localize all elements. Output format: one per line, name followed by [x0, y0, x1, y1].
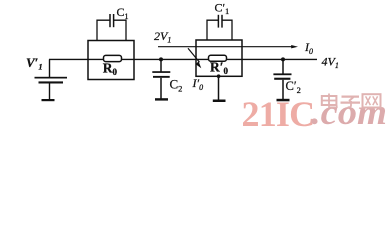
- wire battery top lead: [49, 59, 51, 77]
- current arrow I'0: [188, 48, 201, 68]
- wire C'1 right leg: [222, 20, 232, 40]
- resistor R0: [104, 55, 122, 61]
- box B1: [88, 41, 134, 80]
- resistor R'0: [209, 55, 227, 61]
- wire C'2 bottom lead: [282, 80, 284, 99]
- capacitor C2: [152, 71, 170, 78]
- wire C2 top lead: [160, 59, 162, 71]
- capacitor C'2: [273, 73, 291, 79]
- svg-text:21IC: 21IC: [242, 94, 315, 134]
- wire C1 right leg: [114, 20, 126, 40]
- wire C1 left leg: [97, 20, 110, 40]
- wire battery bottom lead: [49, 83, 51, 99]
- node C (C'2 tap): [281, 57, 285, 61]
- wire C2 bottom lead: [160, 78, 162, 99]
- wire C'1 left leg: [207, 20, 218, 40]
- ground (C'2): [277, 99, 290, 102]
- node B (box2 bottom): [217, 74, 221, 78]
- 网 glyph: [363, 94, 381, 107]
- wire C'2 top lead: [282, 59, 284, 73]
- node A (C2 tap): [159, 57, 163, 61]
- capacitor C'1: [218, 15, 222, 28]
- ground (C2): [155, 98, 168, 100]
- 子 glyph: [341, 97, 361, 108]
- box B2: [196, 40, 242, 76]
- wire box2 ground lead: [218, 76, 220, 100]
- wire 2V1 feed line: [158, 46, 292, 48]
- wire main horizontal bus: [49, 58, 317, 60]
- watermark 电子网: [322, 94, 381, 108]
- 电 glyph: [322, 94, 337, 108]
- ground (battery): [42, 99, 55, 101]
- capacitor C1: [110, 14, 114, 27]
- battery V'1: [35, 77, 68, 84]
- arrowhead I0: [291, 45, 298, 48]
- ground (box2): [213, 100, 226, 103]
